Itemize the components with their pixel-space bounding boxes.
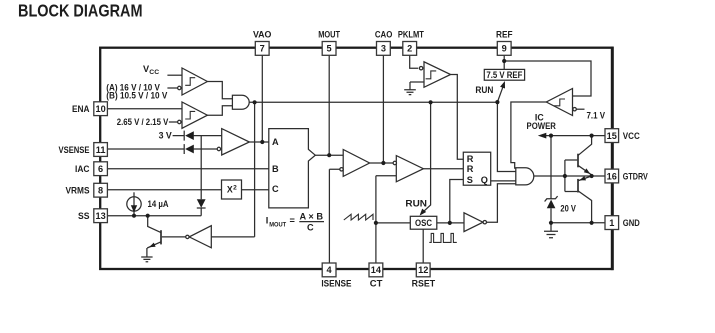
svg-text:14: 14 bbox=[371, 265, 382, 275]
svg-text:B: B bbox=[272, 164, 279, 174]
svg-text:C: C bbox=[272, 184, 279, 194]
svg-text:BLOCK DIAGRAM: BLOCK DIAGRAM bbox=[18, 1, 143, 21]
svg-text:RSET: RSET bbox=[412, 278, 436, 288]
svg-text:3 V: 3 V bbox=[159, 131, 173, 141]
svg-text:16: 16 bbox=[607, 171, 617, 181]
svg-text:R: R bbox=[467, 154, 474, 164]
svg-text:A: A bbox=[272, 137, 279, 147]
svg-text:2.65 V / 2.15 V: 2.65 V / 2.15 V bbox=[117, 117, 169, 127]
svg-text:11: 11 bbox=[96, 145, 106, 155]
svg-text:VCC: VCC bbox=[623, 131, 640, 141]
svg-text:5: 5 bbox=[327, 44, 332, 54]
svg-text:7.5 V REF: 7.5 V REF bbox=[486, 70, 523, 80]
svg-text:X: X bbox=[227, 185, 233, 195]
svg-text:S: S bbox=[467, 175, 473, 185]
svg-text:9: 9 bbox=[502, 44, 507, 54]
svg-text:ISENSE: ISENSE bbox=[321, 278, 351, 288]
svg-text:2: 2 bbox=[407, 44, 412, 54]
svg-text:RUN: RUN bbox=[405, 199, 427, 209]
svg-text:10: 10 bbox=[95, 104, 105, 114]
svg-text:1: 1 bbox=[609, 218, 614, 228]
svg-text:IAC: IAC bbox=[75, 164, 90, 174]
svg-text:VSENSE: VSENSE bbox=[59, 145, 90, 155]
svg-text:Q: Q bbox=[481, 175, 488, 185]
svg-text:7: 7 bbox=[260, 44, 265, 54]
svg-text:(B) 10.5 V / 10 V: (B) 10.5 V / 10 V bbox=[106, 90, 168, 100]
svg-text:A × B: A × B bbox=[300, 211, 324, 221]
svg-text:8: 8 bbox=[98, 186, 103, 196]
svg-text:MOUT: MOUT bbox=[269, 222, 286, 229]
svg-text:4: 4 bbox=[327, 265, 333, 275]
svg-text:CC: CC bbox=[149, 69, 159, 76]
svg-text:6: 6 bbox=[98, 164, 103, 174]
svg-text:REF: REF bbox=[496, 29, 513, 39]
svg-text:13: 13 bbox=[95, 211, 105, 221]
svg-text:SS: SS bbox=[78, 211, 90, 221]
svg-text:R: R bbox=[467, 164, 474, 174]
svg-text:7.1 V: 7.1 V bbox=[587, 111, 606, 121]
svg-text:=: = bbox=[290, 215, 295, 225]
svg-text:CAO: CAO bbox=[375, 29, 393, 39]
svg-text:VAO: VAO bbox=[253, 29, 272, 39]
svg-text:12: 12 bbox=[418, 265, 428, 275]
svg-text:3: 3 bbox=[381, 44, 386, 54]
svg-text:GND: GND bbox=[623, 218, 640, 228]
svg-text:ENA: ENA bbox=[72, 104, 90, 114]
svg-text:GTDRV: GTDRV bbox=[623, 171, 649, 181]
svg-text:14 µA: 14 µA bbox=[148, 199, 169, 209]
svg-text:PKLMT: PKLMT bbox=[398, 29, 424, 39]
svg-text:I: I bbox=[266, 215, 269, 225]
svg-text:2: 2 bbox=[233, 184, 237, 191]
svg-text:20 V: 20 V bbox=[560, 203, 576, 213]
svg-text:OSC: OSC bbox=[415, 218, 433, 228]
svg-text:15: 15 bbox=[607, 131, 617, 141]
svg-text:CT: CT bbox=[370, 278, 383, 288]
svg-text:POWER: POWER bbox=[527, 121, 557, 131]
svg-text:VRMS: VRMS bbox=[66, 186, 90, 196]
svg-text:MOUT: MOUT bbox=[318, 29, 340, 39]
svg-text:C: C bbox=[307, 222, 314, 232]
svg-text:RUN: RUN bbox=[475, 85, 493, 95]
